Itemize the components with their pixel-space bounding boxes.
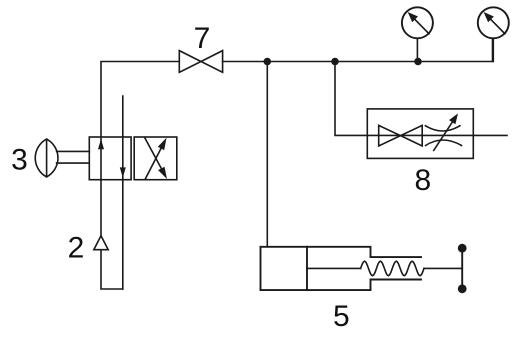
- wire: top rail from valve 7 to right corner: [223, 39, 493, 62]
- flow control valve 8 (enclosure box): [367, 109, 473, 158]
- svg-text:3: 3: [11, 143, 28, 176]
- exhaust path down-arrow with stub above valve: [120, 96, 126, 289]
- svg-text:8: 8: [414, 164, 431, 197]
- cylinder 5 body: [261, 247, 463, 290]
- rod extension to load: [424, 267, 462, 269]
- wire: branch down to flow control valve 8: [335, 62, 367, 136]
- adjustment arrow of valve 8: [434, 113, 458, 150]
- wire: supply riser from valve P-port up to top rail: [101, 62, 179, 181]
- pressure gauge (left): [402, 7, 433, 61]
- push-button actuator (item 3) lens: [35, 139, 89, 177]
- return spring: [361, 261, 424, 276]
- load bar with end stops: [458, 244, 467, 293]
- svg-text:7: 7: [194, 22, 211, 55]
- piston: [306, 247, 308, 290]
- wire: bottom U loop under valve: [101, 180, 123, 289]
- air supply triangle (item 2): [94, 236, 108, 250]
- directional valve (item 3) body, two position squares: [89, 137, 176, 180]
- wire: through-line of valve 8 out to the right: [367, 134, 507, 136]
- wire: branch down to cylinder 5: [266, 62, 268, 247]
- flow path up-arrow in left square: [98, 139, 104, 149]
- junction node (flow-control branch): [331, 58, 339, 66]
- piston rod: [307, 267, 361, 269]
- svg-text:2: 2: [68, 231, 85, 264]
- check valve bowtie inside valve 8: [379, 125, 423, 146]
- throttle restriction arcs inside valve 8: [425, 126, 461, 146]
- crossed-arrows in right square: [145, 138, 167, 180]
- shut-off valve 7: [179, 51, 222, 73]
- junction node (left gauge branch): [414, 58, 422, 66]
- pressure gauge (right): [478, 7, 509, 61]
- junction node (cylinder branch): [264, 58, 272, 66]
- svg-text:5: 5: [333, 300, 350, 333]
